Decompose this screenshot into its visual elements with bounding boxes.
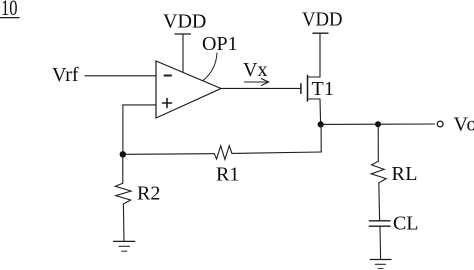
wire node B to output terminal [378, 123, 435, 125]
reference numeral 10 [0, 0, 19, 20]
transistor T1 channel bar [307, 75, 309, 101]
capacitor CL plates [369, 221, 390, 226]
op-amp inverting input '-' marker [165, 75, 172, 77]
junction node A (T1 source / feedback / output) [318, 121, 324, 127]
svg-text:Vrf: Vrf [52, 64, 79, 86]
svg-text:Vo: Vo [454, 113, 474, 135]
junction node C (feedback / R2 / op-amp +) [120, 151, 126, 157]
svg-text:VDD: VDD [302, 9, 343, 31]
wire VDD bar to T1 drain [319, 33, 321, 77]
transistor T1 gate bar [300, 84, 302, 93]
svg-text:T1: T1 [312, 78, 335, 100]
ground (right) [370, 260, 391, 269]
ground (left) [114, 241, 135, 251]
svg-text:R2: R2 [137, 183, 160, 205]
svg-text:VDD: VDD [163, 10, 206, 32]
leader line from OP1 label to op-amp [203, 53, 217, 81]
wire op-amp output to T1 gate [221, 87, 301, 89]
wire Vrf to op-amp inverting input [85, 75, 156, 77]
svg-text:Vx: Vx [243, 59, 267, 81]
wire node B down to RL [377, 124, 379, 161]
svg-text:OP1: OP1 [202, 33, 238, 55]
wire RL to CL [378, 183, 381, 221]
transistor T1 source arm [308, 98, 321, 100]
op-amp non-inverting input '+' marker [163, 99, 172, 108]
transistor T1 drain arm [308, 76, 321, 78]
svg-text:RL: RL [392, 163, 418, 185]
wire node C up to op-amp non-inverting input [123, 105, 156, 154]
junction node B (RL branch) [375, 121, 381, 127]
resistor R1 zigzag [214, 146, 232, 160]
wire T1 source down to node A [319, 99, 322, 124]
wire node A to node B [321, 123, 378, 125]
op-amp OP1 triangle [156, 61, 221, 118]
svg-text:R1: R1 [216, 164, 239, 186]
power VDD bar (op-amp supply) [175, 33, 191, 35]
wire feedback left segment [123, 153, 215, 156]
resistor R2 zigzag [115, 154, 131, 204]
svg-text:CL: CL [393, 213, 419, 235]
wire CL to ground [379, 226, 382, 259]
wire VDD bar to op-amp top edge [182, 34, 184, 72]
wire feedback right segment [232, 152, 321, 153]
arrow under Vx [245, 79, 269, 86]
power VDD bar (T1 drain) [313, 32, 328, 34]
output terminal circle [437, 121, 443, 127]
wire R2 to ground [122, 204, 125, 241]
wire node A down to feedback line [320, 124, 322, 152]
resistor RL zigzag [371, 161, 386, 183]
